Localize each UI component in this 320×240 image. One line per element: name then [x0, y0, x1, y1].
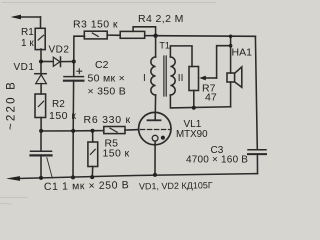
svg-text:HA1: HA1 — [232, 47, 253, 59]
svg-text:150 к: 150 к — [103, 148, 130, 160]
svg-text:VD2: VD2 — [49, 44, 70, 55]
svg-text:R4 2,2 М: R4 2,2 М — [138, 13, 184, 25]
svg-text:VD1: VD1 — [14, 62, 35, 73]
svg-text:R6 330 к: R6 330 к — [84, 114, 131, 126]
svg-text:50 мк ×: 50 мк × — [88, 72, 126, 84]
svg-text:Т1: Т1 — [159, 41, 170, 51]
svg-text:4700 × 160 В: 4700 × 160 В — [186, 155, 248, 166]
svg-text:~220 В: ~220 В — [6, 80, 18, 130]
svg-text:C2: C2 — [95, 59, 109, 71]
svg-text:1 к: 1 к — [21, 38, 34, 49]
svg-text:R3 150 к: R3 150 к — [73, 18, 118, 30]
svg-text:47: 47 — [205, 91, 217, 103]
svg-text:× 350 В: × 350 В — [88, 85, 127, 97]
svg-text:C1 1 мк × 250 В: C1 1 мк × 250 В — [44, 179, 130, 193]
svg-text:R1: R1 — [21, 27, 34, 38]
svg-text:МТХ90: МТХ90 — [176, 129, 208, 140]
svg-text:II: II — [178, 73, 184, 84]
svg-text:150 к: 150 к — [49, 110, 77, 122]
svg-text:R2: R2 — [52, 99, 65, 110]
svg-text:I: I — [143, 73, 146, 84]
svg-text:VD1, VD2 КД105Г: VD1, VD2 КД105Г — [139, 180, 213, 191]
